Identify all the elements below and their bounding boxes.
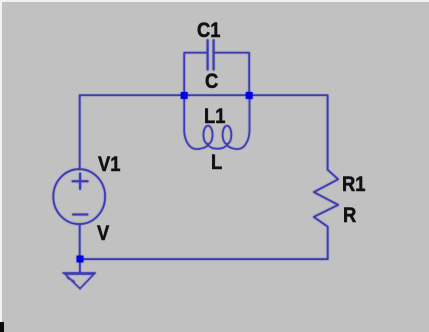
taskbar corner fragment bottom-left	[0, 322, 4, 332]
label C1 (capacitor designator)	[197, 22, 220, 37]
wire right vertical upper (top wire to R1 top)	[327, 95, 329, 170]
ground stem wire	[79, 263, 81, 273]
wire top horizontal (node N1 net)	[80, 94, 328, 96]
label V1 (source designator)	[98, 156, 120, 171]
label V (source value)	[97, 225, 109, 240]
voltage source V1 circle	[53, 169, 105, 224]
label R (resistor value)	[343, 207, 356, 222]
voltage source V1 plus sign	[73, 174, 88, 190]
wire bottom horizontal (ground net)	[80, 258, 328, 260]
capacitor C1 left plate	[207, 40, 209, 70]
window edge highlight top	[0, 0, 429, 2]
ground symbol	[63, 273, 95, 289]
wire left vertical lower (V1 bottom to ground node)	[79, 224, 81, 256]
label L1 (inductor designator)	[204, 108, 225, 123]
wire capacitor branch left riser	[184, 53, 207, 92]
resistor R1 zigzag	[314, 170, 338, 227]
capacitor C1 right plate	[213, 40, 215, 70]
node junction right (top wire / LC branch)	[246, 92, 253, 99]
label C (capacitor value)	[205, 73, 218, 88]
window edge highlight left	[0, 0, 2, 332]
label L (inductor value)	[211, 154, 222, 169]
voltage source V1 minus sign	[73, 214, 88, 216]
node junction ground (bottom wire / V1 / ground)	[77, 256, 84, 263]
wire capacitor branch right riser	[214, 53, 249, 92]
wire left vertical upper (top wire to V1 top)	[79, 95, 81, 169]
node junction left (top wire / LC branch)	[181, 92, 188, 99]
label R1 (resistor designator)	[342, 176, 365, 191]
inductor L1 coil	[184, 99, 249, 149]
wire right vertical lower (R1 bottom to bottom wire)	[327, 227, 329, 259]
